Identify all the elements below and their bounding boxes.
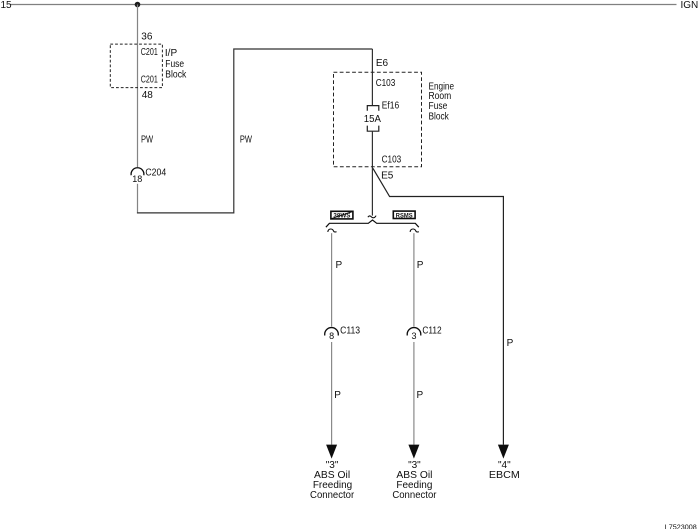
svg-text:C113: C113 xyxy=(340,326,360,337)
svg-text:C112: C112 xyxy=(422,326,442,337)
svg-text:P: P xyxy=(417,390,424,401)
svg-text:8: 8 xyxy=(329,331,334,341)
svg-text:IGN1: IGN1 xyxy=(681,0,698,11)
svg-text:PW: PW xyxy=(141,135,154,146)
svg-text:L7523008: L7523008 xyxy=(665,522,697,529)
svg-text:E5: E5 xyxy=(381,170,394,181)
svg-text:Connector: Connector xyxy=(310,490,355,501)
svg-text:P: P xyxy=(336,260,343,271)
svg-text:Connector: Connector xyxy=(392,490,437,501)
svg-text:C103: C103 xyxy=(376,78,396,89)
svg-text:C201: C201 xyxy=(141,47,158,58)
svg-text:Ef16: Ef16 xyxy=(382,101,400,112)
svg-text:P: P xyxy=(417,260,424,271)
svg-text:36: 36 xyxy=(141,32,153,43)
svg-text:38WS: 38WS xyxy=(333,213,350,220)
svg-text:3: 3 xyxy=(411,331,416,341)
svg-text:15: 15 xyxy=(1,0,13,11)
svg-text:Block: Block xyxy=(165,69,187,80)
svg-text:C103: C103 xyxy=(382,155,402,166)
svg-text:PW: PW xyxy=(240,135,253,146)
svg-text:RSMS: RSMS xyxy=(396,213,413,220)
svg-text:15A: 15A xyxy=(364,114,382,125)
svg-text:Fuse: Fuse xyxy=(429,101,448,112)
svg-text:C201: C201 xyxy=(141,74,158,85)
svg-text:E6: E6 xyxy=(376,58,389,69)
svg-text:48: 48 xyxy=(142,90,154,101)
svg-text:Block: Block xyxy=(429,111,450,122)
svg-text:EBCM: EBCM xyxy=(489,470,520,481)
svg-text:P: P xyxy=(334,390,341,401)
svg-text:P: P xyxy=(507,338,514,349)
svg-text:18: 18 xyxy=(132,174,142,184)
svg-text:C204: C204 xyxy=(145,168,166,179)
svg-text:I/P: I/P xyxy=(165,48,178,59)
